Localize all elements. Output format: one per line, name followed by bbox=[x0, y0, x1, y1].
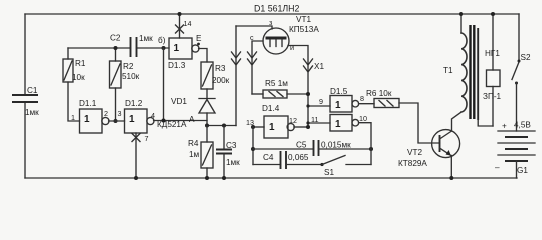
wire feedback b-node vertical bbox=[162, 48, 166, 123]
wire D1.2 output to VD1 node bbox=[154, 120, 207, 122]
wire D1.4 input column bbox=[251, 127, 255, 165]
IC label D1 561LN2 bbox=[254, 4, 299, 14]
svg-text:Т1: Т1 bbox=[443, 66, 453, 75]
node E bbox=[196, 34, 202, 45]
wire VT1 drain bbox=[252, 41, 263, 94]
svg-text:1: 1 bbox=[174, 43, 180, 54]
svg-text:А: А bbox=[189, 115, 195, 124]
svg-text:4,5В: 4,5В bbox=[514, 121, 531, 130]
svg-text:S1: S1 bbox=[324, 168, 334, 177]
wire D1.3 out to R3 bbox=[199, 49, 207, 63]
svg-text:1: 1 bbox=[335, 100, 341, 111]
resistor R5 bbox=[252, 79, 310, 98]
transistor VT1 sensor bbox=[250, 15, 319, 54]
svg-text:D1.3: D1.3 bbox=[168, 61, 186, 70]
wire R1 bottom to D1.1 input bbox=[68, 82, 80, 121]
svg-text:VD1: VD1 bbox=[171, 97, 187, 106]
svg-text:НГ1: НГ1 bbox=[485, 49, 500, 58]
svg-text:1: 1 bbox=[84, 114, 90, 125]
svg-text:11: 11 bbox=[311, 115, 318, 124]
svg-text:2: 2 bbox=[104, 109, 108, 118]
transformer T1 primary bbox=[443, 12, 467, 112]
svg-text:D1.2: D1.2 bbox=[125, 99, 143, 108]
wire multivibrator top bbox=[68, 47, 169, 49]
svg-text:D1.1: D1.1 bbox=[79, 99, 97, 108]
svg-text:R5 1м: R5 1м bbox=[265, 79, 288, 88]
svg-text:510к: 510к bbox=[122, 72, 140, 81]
svg-text:С4: С4 bbox=[263, 153, 274, 162]
svg-text:+: + bbox=[502, 122, 507, 131]
connector X1 bbox=[232, 52, 325, 72]
inverter D1.4 bbox=[246, 104, 297, 138]
wire to pin11 bbox=[306, 121, 330, 124]
battery G1 bbox=[495, 121, 535, 179]
wire to pin9 bbox=[306, 104, 330, 107]
switch S2 bbox=[512, 14, 531, 131]
svg-text:1мк: 1мк bbox=[25, 108, 39, 117]
resistor R1 bbox=[63, 48, 86, 82]
svg-text:R6 10к: R6 10к bbox=[366, 89, 392, 98]
capacitor C4 bbox=[253, 151, 322, 169]
node R2 top bbox=[114, 46, 118, 50]
resistor R2 bbox=[110, 48, 140, 88]
capacitor C2 bbox=[110, 34, 153, 58]
svg-text:VT1: VT1 bbox=[296, 15, 311, 24]
svg-text:S2: S2 bbox=[521, 53, 531, 62]
svg-text:9: 9 bbox=[319, 97, 323, 106]
svg-text:X1: X1 bbox=[314, 62, 324, 71]
resistor R3 bbox=[201, 62, 230, 89]
svg-text:–: – bbox=[495, 163, 500, 172]
inverter D1.6 bbox=[311, 114, 367, 131]
svg-text:R2: R2 bbox=[123, 62, 134, 71]
svg-text:12: 12 bbox=[289, 116, 297, 125]
svg-text:200к: 200к bbox=[212, 76, 230, 85]
inverter D1.2 bbox=[118, 99, 156, 133]
wire R4 to rail bbox=[205, 168, 209, 180]
inverter D1.5 bbox=[319, 87, 364, 112]
svg-text:ЗП-1: ЗП-1 bbox=[483, 92, 502, 101]
node b bbox=[158, 36, 166, 50]
buzzer HG1 ZP-1 bbox=[483, 12, 502, 126]
svg-text:КТ829А: КТ829А bbox=[398, 159, 427, 168]
svg-text:КД521А: КД521А bbox=[157, 120, 187, 129]
capacitor C5 bbox=[253, 140, 373, 156]
resistor R4 bbox=[188, 126, 213, 169]
wire VT1 source bbox=[288, 46, 308, 128]
pin 14 of D1 bbox=[176, 12, 192, 38]
inverter D1.1 bbox=[71, 99, 109, 133]
capacitor C3 bbox=[216, 126, 240, 181]
transformer T1 core bbox=[471, 25, 475, 119]
svg-text:1: 1 bbox=[269, 122, 275, 133]
wire R2 bottom bbox=[115, 88, 117, 121]
svg-text:G1: G1 bbox=[517, 166, 528, 175]
svg-text:D1 561ЛН2: D1 561ЛН2 bbox=[254, 4, 299, 14]
svg-text:б): б) bbox=[158, 36, 166, 45]
svg-text:1м: 1м bbox=[189, 150, 200, 159]
svg-text:С2: С2 bbox=[110, 34, 121, 43]
wire left supply column bbox=[24, 14, 26, 178]
svg-text:D1.5: D1.5 bbox=[330, 87, 348, 96]
svg-text:Е: Е bbox=[196, 34, 202, 43]
svg-text:1мк: 1мк bbox=[139, 34, 153, 43]
resistor R6 bbox=[359, 89, 440, 143]
svg-text:4: 4 bbox=[151, 111, 155, 120]
svg-text:С3: С3 bbox=[226, 141, 237, 150]
svg-text:1: 1 bbox=[335, 119, 341, 130]
capacitor C1 bbox=[12, 86, 39, 117]
svg-text:КП513А: КП513А bbox=[289, 25, 319, 34]
pin 7 of D1 bbox=[132, 133, 149, 180]
svg-text:14: 14 bbox=[184, 19, 192, 28]
svg-text:и: и bbox=[290, 43, 294, 52]
wire sensor gate column bbox=[235, 26, 237, 126]
wire D1.4 input bbox=[251, 125, 264, 129]
svg-text:R3: R3 bbox=[215, 64, 226, 73]
svg-text:7: 7 bbox=[145, 134, 149, 143]
svg-text:R1: R1 bbox=[75, 59, 86, 68]
node R2 bottom bbox=[114, 119, 118, 123]
svg-text:D1.4: D1.4 bbox=[262, 104, 280, 113]
wire top supply rail bbox=[25, 13, 519, 15]
wire D1.4 output bbox=[294, 125, 310, 129]
svg-text:0,015мк: 0,015мк bbox=[321, 141, 351, 150]
svg-text:1: 1 bbox=[129, 114, 135, 125]
svg-text:10: 10 bbox=[359, 114, 367, 123]
svg-text:10к: 10к bbox=[72, 73, 85, 82]
transistor VT2 bbox=[398, 113, 461, 181]
switch S1 bbox=[320, 156, 371, 178]
svg-text:8: 8 bbox=[360, 94, 364, 103]
diode VD1 bbox=[157, 97, 215, 129]
inverter D1.3 bbox=[168, 38, 199, 70]
svg-text:С1: С1 bbox=[27, 86, 38, 95]
svg-text:R4: R4 bbox=[188, 139, 199, 148]
svg-text:1: 1 bbox=[71, 113, 75, 122]
svg-text:VT2: VT2 bbox=[407, 148, 422, 157]
transformer T1 secondary bbox=[478, 28, 493, 126]
wire D1.1 out to D1.2 in bbox=[109, 120, 125, 122]
svg-text:3: 3 bbox=[118, 109, 122, 118]
wire VD1 to node A bbox=[206, 113, 208, 126]
wire D1.6 out column bbox=[359, 123, 371, 165]
svg-text:1мк: 1мк bbox=[226, 158, 240, 167]
node A bbox=[189, 115, 236, 128]
wire VT1 gate bbox=[236, 26, 272, 29]
wire bottom supply rail bbox=[25, 177, 517, 179]
svg-text:С5: С5 bbox=[296, 141, 307, 150]
svg-text:0,065: 0,065 bbox=[288, 153, 309, 162]
wire R3 to VD1 bbox=[206, 89, 208, 99]
